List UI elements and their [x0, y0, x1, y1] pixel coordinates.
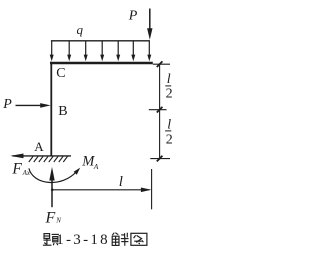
bottom extension line at A level: [150, 158, 170, 160]
svg-text:2: 2: [166, 87, 173, 102]
tick bottom: [157, 156, 163, 162]
load arrow 4: [101, 41, 103, 56]
svg-text:N: N: [55, 217, 61, 225]
bottom dimension line l: [52, 189, 150, 191]
bottom dimension arrowhead: [141, 188, 151, 193]
beam C to right end (top member): [50, 62, 153, 64]
Fax arrowhead (points left): [10, 154, 23, 159]
caption: CJK char TU (图) drawn as strokes: [131, 233, 147, 245]
svg-text:P: P: [2, 97, 12, 112]
right dimension line vertical: [159, 64, 161, 159]
middle extension line at B level: [149, 109, 167, 111]
tick middle: [157, 107, 163, 113]
load arrow 7: [148, 41, 150, 56]
svg-text:l: l: [167, 72, 171, 87]
junction dot at Fn stem: [51, 189, 54, 192]
svg-text:P: P: [128, 8, 138, 23]
svg-text:F: F: [11, 160, 22, 177]
caption: CJK char TI (题) drawn as strokes: [43, 234, 59, 246]
svg-text:2: 2: [166, 132, 173, 147]
bottom dimension right extension line: [151, 169, 153, 209]
svg-text:q: q: [77, 22, 84, 37]
svg-text:B: B: [58, 104, 67, 119]
load arrow 3: [85, 41, 87, 56]
distributed load top line: [51, 40, 150, 42]
force P at B (horizontal): [16, 104, 42, 106]
moment arc Ma: [29, 168, 77, 182]
svg-text:l: l: [119, 174, 123, 190]
load arrow 5: [117, 41, 119, 56]
load arrow 2: [68, 41, 70, 56]
Ma arrowhead: [74, 168, 81, 175]
tick top: [157, 61, 163, 67]
load arrow 6: [132, 41, 134, 56]
hatching of fixed support: [29, 156, 68, 162]
svg-text:A: A: [34, 139, 44, 154]
caption: CJK char JIE (解) drawn as strokes: [112, 233, 128, 246]
load arrow 1: [50, 41, 152, 61]
svg-text:A: A: [93, 162, 99, 171]
svg-text:l: l: [167, 118, 171, 133]
top extension line: [153, 63, 170, 65]
svg-text:C: C: [56, 66, 65, 81]
ground line at A with Fax arrow: [13, 155, 72, 157]
force P at top right: [149, 9, 151, 31]
svg-text:1-3-18: 1-3-18: [56, 232, 110, 248]
svg-text:F: F: [45, 209, 56, 226]
reaction Fn (vertical up arrow below A): [51, 178, 53, 207]
column A to C: [50, 62, 52, 156]
